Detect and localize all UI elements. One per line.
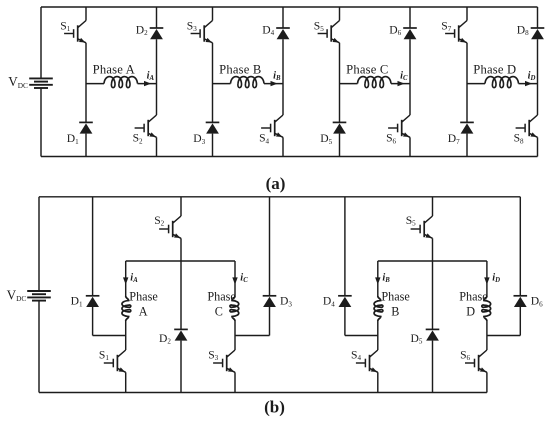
svg-text:Phase: Phase bbox=[459, 289, 487, 303]
current arrow iC (a) bbox=[398, 81, 405, 86]
diode D8 bbox=[531, 28, 545, 39]
svg-text:iC: iC bbox=[400, 70, 408, 82]
diode D4 bbox=[338, 296, 352, 307]
current arrow iC bbox=[232, 277, 237, 284]
wire S5 emitter to D5 cathode bbox=[432, 238, 434, 329]
wire phase A winding right lead bbox=[138, 83, 157, 85]
diode D1 bbox=[79, 122, 93, 133]
wire D2 anode to bottom rail bbox=[180, 341, 182, 393]
wire top rail (a) bbox=[41, 6, 538, 8]
wire D1 to phase A node bbox=[93, 335, 126, 337]
wire bottom rail (a) bbox=[41, 156, 538, 158]
wire S2 emitter to D2 cathode bbox=[180, 238, 182, 329]
wire D1 anode down bbox=[92, 307, 94, 336]
transistor S4 (IGBT) bbox=[261, 115, 283, 137]
wire D4 anode down bbox=[344, 307, 346, 336]
svg-text:D4: D4 bbox=[323, 295, 335, 309]
transistor S6 (IGBT) bbox=[388, 115, 410, 137]
svg-text:D6: D6 bbox=[531, 295, 543, 309]
diode D5 bbox=[333, 122, 347, 133]
diode D2 bbox=[174, 329, 188, 340]
svg-text:Phase: Phase bbox=[129, 289, 157, 303]
wire phase C winding left lead bbox=[340, 83, 358, 85]
wire D6 cathode leg bbox=[409, 7, 411, 28]
wire phase A bottom lead bbox=[125, 321, 127, 336]
diode D4 bbox=[276, 28, 290, 39]
wire phase A/C top bus bbox=[126, 260, 235, 262]
wire battery positive lead (b) bbox=[38, 197, 40, 291]
svg-text:S4: S4 bbox=[259, 132, 269, 146]
svg-text:S5: S5 bbox=[406, 214, 416, 228]
transistor S1 (IGBT) bbox=[64, 21, 86, 43]
inductor phase D winding (b) bbox=[482, 296, 491, 321]
wire phase D to D6 node bbox=[487, 335, 520, 337]
svg-text:D3: D3 bbox=[280, 295, 292, 309]
wire phase B winding right lead bbox=[264, 83, 283, 85]
current arrow iA (a) bbox=[144, 81, 151, 86]
svg-text:S6: S6 bbox=[386, 132, 396, 146]
wire S1 collector leg bbox=[85, 7, 87, 21]
svg-text:Phase: Phase bbox=[207, 289, 235, 303]
battery VDC (a) bbox=[29, 78, 53, 88]
wire phase B top lead bbox=[377, 261, 379, 296]
wire S5 collector leg bbox=[339, 7, 341, 21]
svg-text:VDC: VDC bbox=[8, 74, 28, 90]
wire S2 emitter to bottom rail bbox=[156, 137, 158, 156]
wire S6 emitter to bottom rail bbox=[409, 137, 411, 156]
wire D5 anode to bottom rail bbox=[432, 341, 434, 393]
wire D1 cathode leg bbox=[92, 197, 94, 296]
diode D3 bbox=[206, 122, 220, 133]
wire D6 anode to phase node bbox=[409, 39, 411, 115]
svg-text:S4: S4 bbox=[351, 348, 361, 362]
transistor S6 (IGBT) bbox=[465, 350, 487, 372]
svg-text:Phase D: Phase D bbox=[473, 63, 516, 77]
diode D6 bbox=[403, 28, 417, 39]
wire battery negative lead (b) bbox=[38, 301, 40, 393]
wire D4 anode to phase node bbox=[282, 39, 284, 115]
transistor S2 (IGBT) bbox=[135, 115, 157, 137]
diode D2 bbox=[150, 28, 164, 39]
wire S1 emitter to D1 node bbox=[85, 43, 87, 123]
wire S4 emitter to bottom rail bbox=[377, 372, 379, 392]
svg-text:iA: iA bbox=[130, 273, 138, 285]
diode D1 bbox=[86, 296, 100, 307]
wire D4 to phase B node bbox=[345, 335, 378, 337]
wire D8 anode to phase node bbox=[537, 39, 539, 115]
svg-text:S1: S1 bbox=[60, 19, 70, 33]
wire D4 cathode leg bbox=[282, 7, 284, 28]
wire phase C to D3 node bbox=[235, 335, 270, 337]
svg-text:S6: S6 bbox=[460, 348, 470, 362]
svg-text:S1: S1 bbox=[99, 348, 109, 362]
wire D3 cathode leg bbox=[269, 197, 271, 296]
current arrow iA bbox=[123, 277, 128, 284]
inductor phase A winding (a) bbox=[104, 77, 138, 88]
svg-text:D4: D4 bbox=[262, 23, 274, 37]
wire S3 collector lead bbox=[234, 336, 236, 351]
svg-text:Phase B: Phase B bbox=[219, 63, 261, 77]
wire phase B bottom lead bbox=[377, 321, 379, 336]
svg-text:S2: S2 bbox=[154, 214, 164, 228]
wire S4 emitter to bottom rail bbox=[282, 137, 284, 156]
svg-text:C: C bbox=[215, 305, 223, 319]
svg-text:Phase: Phase bbox=[381, 289, 409, 303]
svg-text:iC: iC bbox=[240, 273, 248, 285]
diode D7 bbox=[460, 122, 474, 133]
svg-text:S8: S8 bbox=[514, 132, 524, 146]
inductor phase C winding (b) bbox=[230, 296, 239, 321]
svg-text:iB: iB bbox=[273, 70, 281, 82]
current arrow iB (a) bbox=[271, 81, 278, 86]
wire D2 cathode leg bbox=[156, 7, 158, 28]
svg-text:iB: iB bbox=[382, 273, 390, 285]
svg-text:D5: D5 bbox=[411, 332, 423, 346]
transistor S3 (IGBT) bbox=[213, 350, 235, 372]
transistor S8 (IGBT) bbox=[516, 115, 538, 137]
svg-text:D2: D2 bbox=[159, 332, 171, 346]
svg-text:A: A bbox=[139, 305, 148, 319]
wire phase A winding left lead bbox=[86, 83, 104, 85]
svg-text:S3: S3 bbox=[208, 348, 218, 362]
svg-text:iD: iD bbox=[492, 273, 500, 285]
wire battery negative lead (a) bbox=[40, 88, 42, 157]
wire S3 emitter to D3 node bbox=[212, 43, 214, 123]
wire S8 emitter to bottom rail bbox=[537, 137, 539, 156]
svg-text:D6: D6 bbox=[389, 23, 401, 37]
inductor phase B winding (a) bbox=[231, 77, 265, 88]
wire S5 emitter to D5 node bbox=[339, 43, 341, 123]
svg-text:D: D bbox=[466, 305, 475, 319]
wire S6 emitter to bottom rail bbox=[486, 372, 488, 392]
wire phase D top lead bbox=[486, 261, 488, 296]
wire phase D winding right lead bbox=[519, 83, 538, 85]
wire phase C winding right lead bbox=[391, 83, 410, 85]
wire S7 collector leg bbox=[466, 7, 468, 21]
current arrow iD bbox=[484, 277, 489, 284]
svg-text:S2: S2 bbox=[133, 132, 143, 146]
wire D5 anode to bottom rail bbox=[339, 134, 341, 157]
svg-text:D1: D1 bbox=[71, 295, 83, 309]
wire D4 cathode leg bbox=[344, 197, 346, 296]
wire top rail (b) bbox=[39, 196, 520, 198]
wire S3 collector leg bbox=[212, 7, 214, 21]
svg-text:D7: D7 bbox=[448, 132, 460, 146]
diode D3 bbox=[263, 296, 277, 307]
wire bottom rail (b) bbox=[39, 392, 487, 394]
wire D3 anode down bbox=[269, 307, 271, 336]
wire D6 anode down bbox=[519, 307, 521, 336]
wire S1 emitter to bottom rail bbox=[125, 372, 127, 392]
battery VDC (b) bbox=[27, 291, 51, 301]
svg-text:iD: iD bbox=[528, 70, 536, 82]
svg-text:D2: D2 bbox=[136, 23, 148, 37]
transistor S4 (IGBT) bbox=[356, 350, 378, 372]
svg-text:Phase C: Phase C bbox=[346, 63, 388, 77]
diode D6 bbox=[514, 296, 528, 307]
inductor phase C winding (a) bbox=[358, 77, 392, 88]
wire phase C bottom lead bbox=[234, 321, 236, 336]
wire D2 anode to phase node bbox=[156, 39, 158, 115]
svg-text:S7: S7 bbox=[441, 19, 451, 33]
wire phase B winding left lead bbox=[213, 83, 231, 85]
svg-text:iA: iA bbox=[147, 70, 155, 82]
svg-text:S3: S3 bbox=[187, 19, 197, 33]
wire S7 emitter to D7 node bbox=[466, 43, 468, 123]
inductor phase D winding (a) bbox=[485, 77, 519, 88]
svg-text:S5: S5 bbox=[314, 19, 324, 33]
svg-text:B: B bbox=[391, 305, 399, 319]
transistor S7 (IGBT) bbox=[445, 21, 467, 43]
wire phase D bottom lead bbox=[486, 321, 488, 336]
transistor S2 (IGBT) bbox=[159, 216, 181, 238]
wire S1 collector lead bbox=[125, 336, 127, 351]
transistor S3 (IGBT) bbox=[191, 21, 213, 43]
wire S2 collector leg bbox=[180, 197, 182, 216]
wire phase B/D top bus bbox=[378, 260, 487, 262]
wire battery positive lead (a) bbox=[40, 7, 42, 78]
svg-text:D8: D8 bbox=[517, 23, 529, 37]
transistor S5 (IGBT) bbox=[411, 216, 433, 238]
svg-text:(a): (a) bbox=[266, 174, 286, 193]
inductor phase B winding (b) bbox=[374, 296, 383, 321]
wire S4 collector lead bbox=[377, 336, 379, 351]
current arrow iB bbox=[375, 277, 380, 284]
wire S5 collector leg bbox=[432, 197, 434, 216]
wire phase C top lead bbox=[234, 261, 236, 296]
wire D3 anode to bottom rail bbox=[212, 134, 214, 157]
wire D8 cathode leg bbox=[537, 7, 539, 28]
svg-text:VDC: VDC bbox=[7, 287, 27, 303]
diode D5 bbox=[426, 329, 440, 340]
wire D1 anode to bottom rail bbox=[85, 134, 87, 157]
wire S6 collector lead bbox=[486, 336, 488, 351]
wire D6 cathode leg bbox=[519, 197, 521, 296]
wire S3 emitter to bottom rail bbox=[234, 372, 236, 392]
wire phase D winding left lead bbox=[467, 83, 485, 85]
wire phase A top lead bbox=[125, 261, 127, 296]
inductor phase A winding (b) bbox=[122, 296, 131, 321]
wire D7 anode to bottom rail bbox=[466, 134, 468, 157]
transistor S5 (IGBT) bbox=[318, 21, 340, 43]
svg-text:D1: D1 bbox=[67, 132, 79, 146]
svg-text:D3: D3 bbox=[193, 132, 205, 146]
svg-text:D5: D5 bbox=[320, 132, 332, 146]
svg-text:(b): (b) bbox=[264, 398, 285, 417]
transistor S1 (IGBT) bbox=[104, 350, 126, 372]
svg-text:Phase A: Phase A bbox=[93, 63, 135, 77]
current arrow iD (a) bbox=[525, 81, 532, 86]
